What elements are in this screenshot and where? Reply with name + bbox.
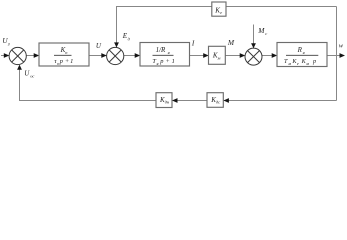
arrow into summer1 xyxy=(4,53,10,58)
svg-text:I: I xyxy=(191,40,195,48)
value label block Km xyxy=(212,51,221,60)
value label block Ke xyxy=(214,6,222,15)
svg-text:1: 1 xyxy=(70,58,73,65)
arrow into block W1 xyxy=(34,53,40,58)
block Kdn speed feedback 2 xyxy=(156,93,172,108)
svg-text:w: w xyxy=(339,43,344,50)
svg-text:м: м xyxy=(305,61,309,66)
arrow into summer3 xyxy=(240,53,246,58)
wire summer1 to block W1 xyxy=(26,55,35,57)
value label block W2 fraction 1/Rya/(Tya p+1) xyxy=(152,46,174,66)
svg-text:е: е xyxy=(220,10,222,15)
svg-text:+: + xyxy=(166,58,170,65)
arrow into summer2 xyxy=(101,53,107,58)
svg-text:с: с xyxy=(265,31,267,36)
wire input Uz to summer 1 xyxy=(1,55,6,57)
block Ke EMF coefficient xyxy=(212,2,226,16)
svg-text:я: я xyxy=(156,61,159,66)
block W2 armature xyxy=(140,43,190,67)
node label E EMF xyxy=(122,32,131,42)
summing junction 1 xyxy=(9,47,26,64)
svg-text:1: 1 xyxy=(172,58,175,65)
arrow into block Kds right side xyxy=(223,98,229,103)
svg-text:я: я xyxy=(167,50,170,55)
wire block Km to summer 3 xyxy=(225,55,241,57)
wire EMF feedback down into summer 2 xyxy=(116,7,118,45)
arrow output omega xyxy=(340,53,346,58)
arrow Mc into summer3 top xyxy=(251,43,256,48)
wire summer3 to block W3 xyxy=(262,55,273,57)
block W1 converter xyxy=(39,43,89,66)
arrow feedback into summer1 bottom xyxy=(17,65,22,70)
block W3 mechanical xyxy=(277,43,327,67)
svg-text:з: з xyxy=(7,42,10,47)
svg-text:p: p xyxy=(159,58,163,65)
arrow into block Kdn right side xyxy=(172,98,178,103)
value label block W1 fraction Kp/(tau p+1) xyxy=(54,46,73,66)
value label block W3 fraction Rya/(Tm Ke Km p) xyxy=(284,46,318,66)
svg-text:1/R: 1/R xyxy=(156,46,166,54)
wire block W2 to block Km xyxy=(189,55,205,57)
svg-text:p: p xyxy=(59,58,63,65)
block Km torque constant xyxy=(209,46,226,64)
svg-text:м: м xyxy=(287,61,291,66)
svg-text:е: е xyxy=(297,61,299,66)
wire bottom speed feedback horizontal xyxy=(19,100,337,102)
arrow into block W2 xyxy=(135,53,141,58)
wire block W1 to summer 2 xyxy=(89,55,103,57)
arrow EMF into summer2 top xyxy=(114,42,119,47)
wire block W3 to output xyxy=(327,55,341,57)
block Kds speed feedback 1 xyxy=(207,93,223,108)
svg-text:+: + xyxy=(65,58,69,65)
svg-text:M: M xyxy=(227,38,235,47)
arrow into block W3 xyxy=(272,53,278,58)
svg-text:M: M xyxy=(257,26,265,35)
wire feedback tap vertical xyxy=(336,7,338,101)
svg-text:м: м xyxy=(217,55,221,60)
node label Mc load torque xyxy=(257,26,267,36)
arrow into block Km xyxy=(203,53,209,58)
value label block Kds xyxy=(210,96,220,105)
svg-text:ос: ос xyxy=(30,74,34,79)
node label Uoc feedback xyxy=(24,70,34,79)
summing junction 2 xyxy=(107,47,124,64)
summing junction 3 xyxy=(245,48,262,65)
wire speed feedback up into summer 1 xyxy=(19,67,21,101)
node label Uz input xyxy=(2,37,9,47)
wire Mc input vertical xyxy=(253,25,255,46)
svg-text:p: p xyxy=(312,58,316,65)
svg-text:дс: дс xyxy=(216,100,220,105)
svg-text:я: я xyxy=(302,50,305,55)
wire top EMF feedback horizontal xyxy=(116,6,337,8)
value label block Kdn xyxy=(159,96,170,105)
wire summer2 to block W2 xyxy=(124,55,136,57)
